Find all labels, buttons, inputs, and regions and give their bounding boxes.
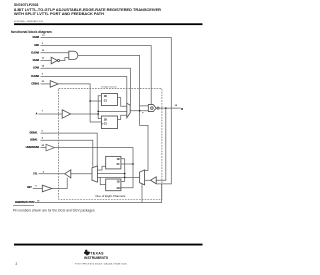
wire LEAB row down to lower clock node (41, 68, 131, 105)
svg-text:LEAB: LEAB (33, 67, 40, 70)
buffered row3 line to lower clock node (55, 148, 134, 164)
svg-text:OEBA1: OEBA1 (29, 132, 38, 135)
junction node: A data mux branch (97, 111, 99, 113)
wire driver upper input branch (140, 106, 149, 111)
svg-text:LEBA/CEBA: LEBA/CEBA (26, 146, 40, 149)
wire register 2 Q to mux M1 (118, 115, 127, 119)
junction node: B line receiver tap (165, 107, 167, 109)
wire Y driver to Y pin (39, 173, 65, 175)
svg-text:1D: 1D (104, 96, 107, 98)
svg-text:To Eight Channels: To Eight Channels (101, 86, 117, 89)
svg-text:1D: 1D (117, 181, 120, 183)
svg-text:CEAB: CEAB (33, 59, 40, 62)
wire feedback jog down to mux M2 (140, 111, 148, 171)
footer rule (14, 244, 203, 246)
inverter U1 on CEAB (51, 57, 57, 64)
header rule (14, 23, 203, 25)
wire register 1 Q to mux M1 (118, 98, 127, 107)
buffer U3 on CEBA (50, 81, 58, 88)
wire A buffered data line (71, 113, 99, 115)
wire register 4 Q stub (100, 177, 106, 184)
svg-text:POST OFFICE BOX 655303 • DALLA: POST OFFICE BOX 655303 • DALLAS, TEXAS 7… (75, 263, 128, 266)
wire OEY row to buffer (33, 188, 43, 190)
junction node: A data branch (97, 113, 99, 115)
wire branch to register 1 clock (90, 100, 101, 102)
svg-text:LEBA1: LEBA1 (30, 139, 38, 142)
svg-text:1Y1: 1Y1 (33, 173, 38, 175)
receiver U6 B-port (151, 177, 157, 184)
wire register outputs bus to mux M3 (97, 173, 124, 175)
mux M1 A-to-B output select (127, 103, 130, 118)
svg-text:SCES360A – FEBRUARY 2001: SCES360A – FEBRUARY 2001 (14, 20, 44, 23)
footnote separator line (13, 204, 34, 207)
svg-text:One of Eight Channels: One of Eight Channels (95, 194, 126, 198)
svg-text:OEAB: OEAB (33, 36, 40, 39)
wire register 3 Q stub (97, 166, 105, 170)
svg-text:CLKBA: CLKBA (31, 75, 39, 78)
wire lower clock to register 4 (121, 164, 133, 188)
junction node: lower data bus branch 2 (124, 173, 126, 175)
svg-text:functional block diagram: functional block diagram (11, 30, 52, 34)
Y output driver U7 (65, 170, 71, 178)
junction node: lower clock branch (132, 163, 134, 165)
wire mux M3 out to Y driver (71, 173, 92, 175)
svg-text:1D: 1D (104, 120, 107, 122)
wire CEBA row to buffer (41, 83, 51, 85)
junction node: lower data bus branch 1 (124, 177, 126, 179)
mux M2 feedback select (140, 170, 145, 185)
dashed channel box (59, 89, 162, 200)
wire receiver out to mux M2 (145, 179, 151, 181)
wire branch to register 3 D input (121, 159, 125, 178)
svg-text:ERC: ERC (34, 45, 39, 47)
mux M3 B-to-A output select (92, 166, 97, 182)
junction node: register clock branch upper (89, 100, 91, 102)
wire A input to buffer (39, 113, 63, 115)
wire row3 to buffer (41, 147, 47, 149)
wire OEBA row1 to mux M3 select (41, 133, 98, 166)
wire branch to register 1 D input (98, 96, 101, 114)
register 4 B-to-A latch (106, 179, 121, 191)
wire inverter out jog up to AND gate (60, 58, 69, 61)
buffer U8 on OEY (42, 185, 52, 192)
svg-text:CLKAB: CLKAB (31, 51, 39, 54)
register 3 B-to-A flip-flop (106, 156, 121, 169)
svg-text:2: 2 (16, 262, 18, 266)
register 1 A-to-B flip-flop (101, 94, 117, 106)
wire branch to register 4 D input (121, 177, 125, 181)
buffer U4 on A input (62, 110, 70, 118)
wire M2 select stub (141, 184, 143, 203)
wire lower clock to register 3 (121, 163, 133, 165)
svg-text:1D: 1D (117, 159, 120, 161)
wire branch to mux M1 middle input (98, 110, 127, 112)
buffer U9 on row3 (46, 144, 55, 150)
wire OEAB row to driver gate top (41, 46, 152, 105)
B-port driver U5 (148, 105, 156, 112)
wire AND out to driver data node (78, 55, 140, 106)
TI logo Texas map glyph (84, 250, 90, 256)
wire branch to register 2 D input (98, 114, 101, 119)
wire OEY buffered to Y driver enable (52, 178, 67, 189)
svg-text:INSTRUMENTS: INSTRUMENTS (84, 256, 109, 260)
register 2 clock wedge (101, 123, 103, 125)
AND gate U2 gated clock (69, 51, 78, 59)
wire feedback select bottom long line (35, 184, 162, 203)
register 4 clock wedge (119, 187, 121, 189)
svg-text:FEEDBACK PATH: FEEDBACK PATH (15, 201, 35, 204)
wire mux M2 out data bus (97, 176, 139, 178)
wire B driver output to B pin (159, 107, 181, 109)
wire CEBA buffered to register clocks (58, 84, 101, 122)
wire CLKAB row to AND gate (41, 52, 69, 54)
wire LEBA row2 to mux M3 select (41, 140, 93, 167)
wire CEAB row to inverter (41, 60, 52, 62)
svg-text:WITH SPLIT LVTTL PORT AND FEED: WITH SPLIT LVTTL PORT AND FEEDBACK PATH (14, 11, 104, 16)
svg-text:Pin numbers shown are for the: Pin numbers shown are for the DGG and DG… (13, 208, 96, 212)
wire CLKBA row to mux M1 select (41, 77, 127, 104)
junction node: driver data with feedback tap (139, 110, 141, 112)
wire mux M1 out to B driver (130, 110, 148, 112)
wire B line tap down to receiver (156, 108, 166, 180)
register 2 A-to-B latch (101, 116, 117, 129)
wire OEBA row to receiver enable (41, 38, 172, 184)
svg-text:CEBA1: CEBA1 (31, 82, 40, 85)
svg-text:OEY: OEY (27, 187, 32, 189)
